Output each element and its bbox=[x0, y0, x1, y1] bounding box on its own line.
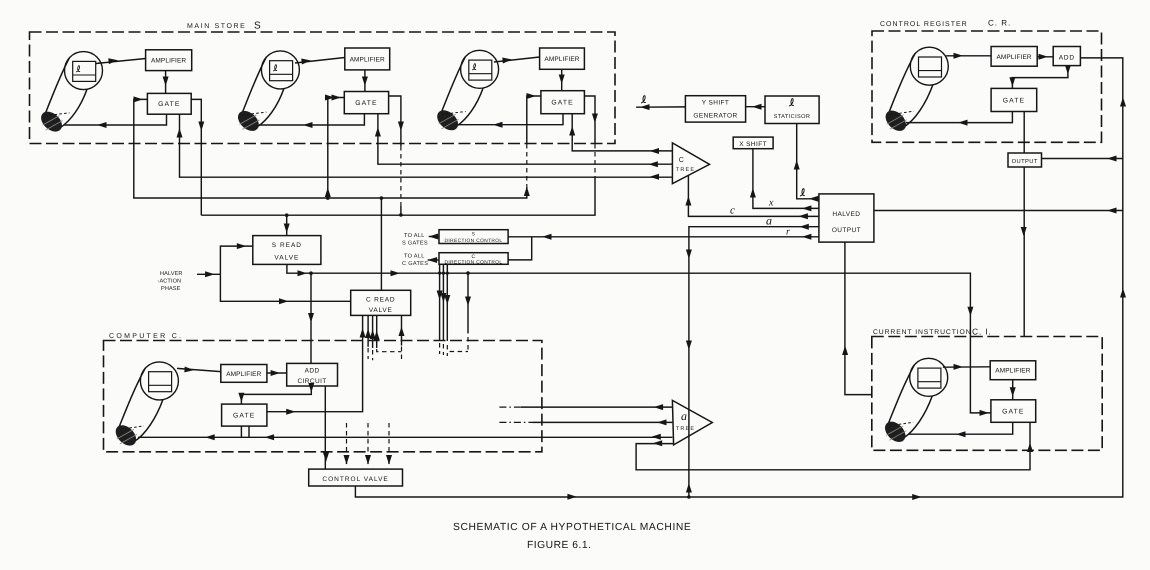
svg-text:a: a bbox=[766, 214, 772, 228]
svg-text:ADD: ADD bbox=[305, 368, 320, 375]
svg-text:C GATES: C GATES bbox=[402, 261, 428, 267]
svg-text:GATE: GATE bbox=[233, 413, 255, 420]
svg-text:S READ: S READ bbox=[272, 242, 302, 249]
svg-text:C: C bbox=[471, 254, 475, 260]
svg-text:X SHIFT: X SHIFT bbox=[739, 141, 767, 148]
svg-text:VALVE: VALVE bbox=[274, 255, 299, 262]
svg-text:SCHEMATIC OF A HYPOTHETICAL MA: SCHEMATIC OF A HYPOTHETICAL MACHINE bbox=[453, 522, 691, 533]
svg-text:GATE: GATE bbox=[551, 100, 573, 107]
svg-text:DIRECTION CONTROL: DIRECTION CONTROL bbox=[445, 260, 503, 266]
svg-text:GATE: GATE bbox=[355, 100, 377, 107]
svg-text:PHASE: PHASE bbox=[161, 286, 181, 292]
svg-text:S: S bbox=[472, 232, 476, 238]
svg-text:CONTROL VALVE: CONTROL VALVE bbox=[322, 476, 388, 483]
svg-text:VALVE: VALVE bbox=[369, 307, 393, 314]
svg-text:TREE: TREE bbox=[676, 167, 695, 173]
svg-text:S GATES: S GATES bbox=[402, 241, 428, 247]
svg-text:AMPLIFIER: AMPLIFIER bbox=[151, 58, 186, 65]
svg-text:HALVED: HALVED bbox=[832, 211, 860, 218]
svg-text:OUTPUT: OUTPUT bbox=[832, 227, 861, 234]
svg-text:C: C bbox=[679, 157, 684, 164]
svg-text:COMPUTER C.: COMPUTER C. bbox=[109, 333, 183, 340]
svg-text:ADD: ADD bbox=[1059, 54, 1075, 61]
svg-text:x: x bbox=[768, 198, 774, 209]
svg-text:GENERATOR: GENERATOR bbox=[693, 113, 737, 120]
svg-text:r: r bbox=[786, 227, 790, 238]
svg-text:c: c bbox=[730, 205, 735, 217]
svg-text:CURRENT INSTRUCTION: CURRENT INSTRUCTION bbox=[873, 329, 972, 336]
svg-text:S: S bbox=[254, 21, 261, 32]
svg-text:GATE: GATE bbox=[1002, 409, 1024, 416]
svg-text:TREE: TREE bbox=[676, 426, 695, 432]
svg-text:CONTROL REGISTER: CONTROL REGISTER bbox=[880, 21, 968, 28]
svg-text:MAIN STORE: MAIN STORE bbox=[187, 23, 246, 30]
svg-text:HALVER: HALVER bbox=[160, 271, 183, 277]
svg-text:AMPLIFIER: AMPLIFIER bbox=[544, 56, 579, 63]
svg-text:C. R.: C. R. bbox=[988, 19, 1011, 28]
svg-text:DIRECTION CONTROL: DIRECTION CONTROL bbox=[445, 238, 503, 244]
svg-text:AMPLIFIER: AMPLIFIER bbox=[996, 54, 1031, 61]
svg-text:TO ALL: TO ALL bbox=[404, 233, 425, 239]
svg-text:AMPLIFIER: AMPLIFIER bbox=[226, 371, 261, 378]
svg-text:AMPLIFIER: AMPLIFIER bbox=[350, 57, 385, 64]
svg-text:C. I.: C. I. bbox=[972, 327, 992, 337]
svg-text:FIGURE 6.1.: FIGURE 6.1. bbox=[527, 540, 591, 551]
svg-text:STATICISOR: STATICISOR bbox=[774, 114, 811, 120]
svg-text:-ACTION: -ACTION bbox=[158, 279, 182, 285]
svg-text:GATE: GATE bbox=[158, 101, 180, 108]
svg-text:OUTPUT: OUTPUT bbox=[1012, 158, 1038, 165]
svg-text:GATE: GATE bbox=[1003, 98, 1025, 105]
svg-text:C READ: C READ bbox=[366, 297, 395, 304]
svg-text:TO ALL: TO ALL bbox=[404, 254, 425, 260]
svg-text:a: a bbox=[681, 409, 687, 423]
svg-text:Y SHIFT: Y SHIFT bbox=[702, 100, 730, 107]
svg-text:AMPLIFIER: AMPLIFIER bbox=[995, 368, 1030, 375]
